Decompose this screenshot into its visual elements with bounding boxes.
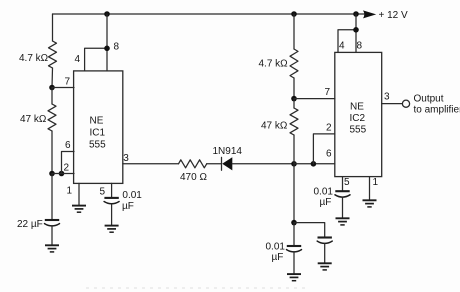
ground (22uF) [45,245,59,252]
capacitor 0.01 uF (IC2 pin5) curved plate [335,195,350,197]
ground (IC1 pin5 cap) [105,226,119,233]
svg-text:NE: NE [350,102,364,113]
+12 V supply arrow [363,10,376,18]
wire IC2 pin 5 [342,177,344,191]
wire IC2 pin 8 [355,14,357,52]
node: top rail / middle rail [291,11,297,17]
wire 47k down through diode node to bottom node [293,135,295,223]
svg-text:555: 555 [350,125,367,136]
capacitor 0.01 uF (bottom) curved plate [287,250,302,252]
node: left rail / IC1 pin2 [49,171,55,177]
capacitor (bottom right) top plate [318,236,332,238]
node: top rail / IC1 pin8 branch [104,11,110,17]
capacitor 0.01 uF (IC1 pin5) curved plate [104,202,119,204]
output terminal circle [402,100,409,107]
wire IC1 pin 3 output [123,163,179,165]
svg-text:µF: µF [320,197,332,208]
node: diode wire / middle rail [291,161,297,167]
capacitor 0.01 uF (bottom) top plate [287,245,301,247]
svg-text:8: 8 [114,42,120,53]
wire node to 47k [293,99,295,108]
svg-text:47 kΩ: 47 kΩ [261,121,288,132]
capacitor 0.01 uF (IC2 pin5) top plate [335,190,349,192]
svg-text:1: 1 [373,177,379,188]
wire IC1 pin 1 to ground [78,183,80,205]
svg-text:6: 6 [65,140,71,151]
svg-text:4: 4 [339,41,345,52]
ground (bottom 0.01uF cap) [287,274,301,281]
svg-text:5: 5 [344,177,350,188]
svg-text:4.7 kΩ: 4.7 kΩ [19,53,49,64]
resistor 470 Ohm [179,160,207,168]
wire IC1 pin 5 [111,183,113,197]
svg-text:7: 7 [65,77,71,88]
wire 22uF to ground [51,226,53,245]
svg-text:2: 2 [64,163,70,174]
op IC2 555 timer body [335,52,382,176]
wire 4.7k to node [293,78,295,99]
wire 47k down to pin2 node [51,131,53,174]
svg-text:22 µF: 22 µF [17,219,43,230]
resistor 47 kOhm (left) [48,104,56,131]
ground (IC2 pin1) [363,200,377,207]
wire bottom node down to 0.01uF [293,223,295,246]
node: top rail / IC2 pin8 branch [353,11,359,17]
wire left rail to 22uF [51,174,53,220]
svg-text:4: 4 [75,54,81,65]
wire IC1 pin 8 [106,14,108,71]
wire IC2 pin 7 [294,98,335,100]
wire IC1 pin 6 branch [62,152,75,174]
wire top +12V rail [53,13,365,15]
capacitor (bottom right) curved plate [317,241,332,243]
op IC1 555 timer body [74,71,123,183]
node: pin6 branch joins pin2 wire [59,171,65,177]
svg-text:6: 6 [326,149,332,160]
svg-text:8: 8 [357,41,363,52]
svg-text:3: 3 [123,153,129,164]
capacitor 22 uF top plate [45,219,59,221]
capacitor 22 uF curved plate [45,224,60,226]
svg-text:5: 5 [100,187,106,198]
ground (IC2 pin5 cap) [336,218,350,225]
svg-text:µF: µF [272,252,284,263]
diode D1 1N914 cathode bar [221,157,223,170]
svg-text:47 kΩ: 47 kΩ [20,114,47,125]
wire 4.7k to node [51,68,54,88]
node: middle rail bottom junction [291,220,297,226]
svg-text:555: 555 [89,140,106,151]
diode D1 1N914 triangle [222,157,232,170]
node: pin4 joins pin8 lead [104,46,110,52]
wire IC2 pin 2 [313,134,334,164]
svg-text:µF: µF [122,201,134,212]
resistor 4.7 kOhm (middle) [290,49,298,78]
svg-text:Output: Output [414,94,444,105]
wire middle rail top [293,14,295,49]
svg-text:2: 2 [326,123,332,134]
wire IC1 pin 2 [52,173,74,175]
wire IC1 pin 4 [85,48,107,71]
wire cap to ground [324,244,326,263]
node: left rail / IC1 pin7 [49,85,55,91]
wire resistor to diode [207,163,222,165]
svg-text:7: 7 [325,87,331,98]
node: IC2 pin4 joins pin8 lead [353,27,359,33]
svg-text:4.7 kΩ: 4.7 kΩ [259,59,289,70]
svg-text:470 Ω: 470 Ω [180,172,207,183]
wire node to IC2 pin 6 [294,163,335,165]
resistor 4.7 kOhm (left) [49,41,57,68]
svg-text:0.01: 0.01 [122,190,142,201]
svg-text:IC2: IC2 [350,113,366,124]
svg-text:1: 1 [67,186,73,197]
wire bottom node to right cap branch [294,223,325,237]
svg-text:to amplifier: to amplifier [414,105,460,116]
ground (IC1 pin1) [72,206,86,213]
wire node to 47k [51,88,53,105]
capacitor 0.01 uF (IC1 pin5) top plate [104,197,118,199]
wire cap to ground [293,252,295,273]
svg-text:IC1: IC1 [90,128,106,139]
wire cap to ground [342,198,344,218]
svg-text:+ 12 V: + 12 V [379,10,409,21]
wire IC2 pin 4 [338,30,356,53]
wire IC2 pin 3 output [382,103,403,105]
wire left rail top [52,14,54,41]
scan artifact faint line [86,287,308,289]
wire diode to middle rail [232,163,294,165]
node: IC2 pin2 branch joins pin6 wire [311,161,317,167]
svg-text:1N914: 1N914 [213,146,243,157]
node: middle rail / IC2 pin7 [291,96,297,102]
resistor 47 kOhm (middle) [290,108,298,135]
svg-text:3: 3 [384,92,390,103]
wire IC2 pin 1 to ground [369,177,371,200]
svg-text:NE: NE [90,116,104,127]
wire cap to ground [111,204,113,225]
wire IC1 pin 7 [52,87,74,89]
ground (bottom right cap) [318,263,332,270]
